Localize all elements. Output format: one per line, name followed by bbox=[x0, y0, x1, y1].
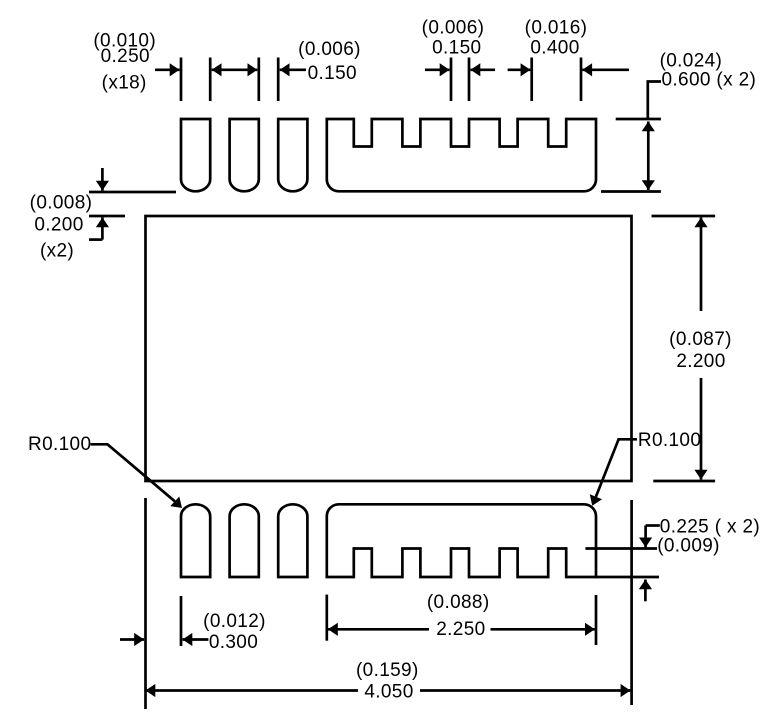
svg-text:(x18): (x18) bbox=[102, 73, 147, 94]
svg-text:(0.159): (0.159) bbox=[356, 660, 419, 681]
svg-text:(0.006): (0.006) bbox=[298, 39, 361, 60]
svg-text:0.150: 0.150 bbox=[432, 37, 481, 58]
svg-text:2.250: 2.250 bbox=[436, 619, 485, 640]
svg-text:(0.016): (0.016) bbox=[525, 18, 588, 39]
svg-text:(0.012): (0.012) bbox=[203, 611, 266, 632]
svg-text:0.225 ( x 2): 0.225 ( x 2) bbox=[660, 516, 760, 537]
svg-text:0.150: 0.150 bbox=[308, 63, 357, 84]
svg-text:(0.024): (0.024) bbox=[660, 50, 723, 71]
svg-text:R0.100: R0.100 bbox=[28, 434, 91, 455]
svg-text:0.600 (x 2): 0.600 (x 2) bbox=[662, 70, 757, 91]
svg-text:(0.008): (0.008) bbox=[30, 193, 93, 214]
svg-text:0.300: 0.300 bbox=[209, 632, 258, 653]
svg-text:0.400: 0.400 bbox=[530, 37, 579, 58]
svg-text:(0.006): (0.006) bbox=[422, 18, 485, 39]
svg-text:(0.087): (0.087) bbox=[669, 329, 732, 350]
svg-text:(0.009): (0.009) bbox=[657, 535, 720, 556]
svg-text:R0.100: R0.100 bbox=[638, 430, 701, 451]
svg-text:(x2): (x2) bbox=[40, 241, 74, 262]
svg-text:0.200: 0.200 bbox=[34, 215, 83, 236]
svg-text:2.200: 2.200 bbox=[676, 351, 725, 372]
svg-text:4.050: 4.050 bbox=[364, 681, 413, 702]
svg-text:(0.088): (0.088) bbox=[427, 592, 490, 613]
svg-text:0.250: 0.250 bbox=[101, 46, 150, 67]
